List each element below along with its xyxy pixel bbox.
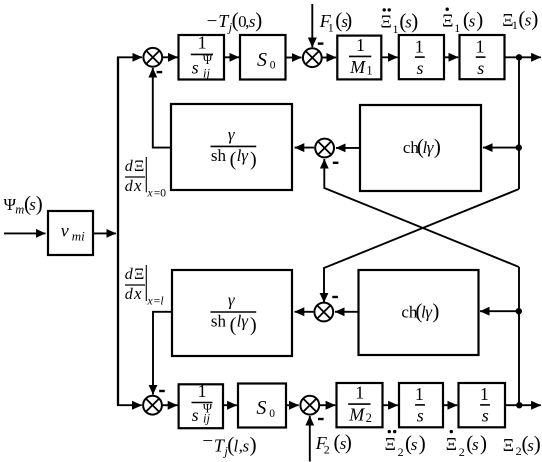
wire S5 to block 1/s_ij bottom	[163, 404, 178, 406]
svg-text:): )	[480, 431, 487, 455]
svg-text:=0: =0	[154, 188, 166, 200]
svg-text:=: =	[154, 295, 161, 307]
svg-text:2: 2	[398, 445, 404, 459]
wire 1/M1 to 1/s a	[381, 56, 397, 58]
svg-text:M: M	[349, 57, 366, 77]
summing junction S1	[143, 48, 162, 67]
svg-text:1: 1	[480, 384, 489, 404]
wire 1/s c to 1/s d	[443, 404, 457, 406]
svg-text:Ξ: Ξ	[381, 12, 392, 32]
summing junction S4	[314, 303, 333, 322]
label dXi/dx at x=0	[125, 157, 166, 200]
junction dot bottom output	[516, 402, 522, 408]
junction dot top output	[516, 54, 522, 60]
block 1/s c	[399, 383, 443, 427]
minus sign at S2 top input	[318, 42, 324, 44]
svg-text:1: 1	[454, 21, 460, 35]
minus sign at S5 top input	[159, 390, 165, 392]
wire F2 input rise	[309, 416, 311, 462]
label F2(s)	[315, 430, 352, 456]
svg-text:M: M	[348, 405, 365, 425]
svg-text:s: s	[469, 11, 476, 30]
svg-text:1: 1	[356, 35, 365, 55]
wire S0 to summer S2	[286, 57, 302, 59]
label Xi1 dot (s)	[442, 8, 483, 36]
junction dot ch1 input	[516, 144, 522, 150]
block 1/s d	[459, 383, 506, 427]
wire S2 to 1/M1	[322, 57, 336, 59]
wire S3 bottom input diagonal from Xi2 line	[324, 159, 519, 267]
svg-text:ν: ν	[61, 221, 69, 241]
wire ch1 to summer S3	[336, 147, 360, 149]
label Xi2 dot (s)	[446, 430, 487, 459]
minus sign at S3 bottom input	[333, 162, 339, 164]
block ch2	[359, 270, 479, 355]
label F1(s)	[319, 8, 353, 34]
wire trunk to summer S1	[117, 56, 142, 58]
wire 1/s_ij to S0	[224, 56, 239, 58]
label Xi1(s) output	[502, 6, 538, 32]
block gamma over sh(l gamma) bottom	[172, 270, 292, 356]
svg-text:1: 1	[393, 22, 399, 36]
svg-text:mi: mi	[72, 228, 85, 243]
wire into ch1 right	[483, 147, 519, 149]
svg-text:): )	[411, 9, 418, 33]
summing junction S2	[303, 48, 322, 67]
wire trunk to summer S5	[117, 404, 142, 406]
label Psi_m(s) input	[4, 191, 43, 216]
wire S1 to block 1/s_ij	[163, 56, 178, 58]
svg-text:sh: sh	[211, 146, 227, 165]
svg-text:1: 1	[476, 36, 485, 56]
summing junction S3	[315, 139, 334, 158]
svg-text:Ξ: Ξ	[385, 434, 396, 454]
wire output Xi2	[505, 404, 541, 406]
svg-text:x: x	[133, 176, 142, 195]
block gamma over sh(l gamma) top	[171, 104, 292, 190]
label dXi/dx at x=l	[125, 265, 164, 307]
block 1/s_ij^Psi bottom	[179, 381, 223, 428]
wire into ch2 right	[480, 310, 519, 312]
svg-text:x: x	[147, 188, 154, 200]
svg-text:2: 2	[366, 411, 372, 425]
label -T_j(l,s)	[202, 431, 256, 458]
svg-text:Ξ: Ξ	[446, 434, 457, 454]
svg-text:d: d	[125, 158, 134, 175]
svg-text:ij: ij	[203, 66, 210, 80]
svg-text:0: 0	[270, 60, 276, 72]
svg-text:): )	[419, 431, 426, 455]
svg-text:m: m	[15, 202, 24, 216]
svg-text:1: 1	[415, 384, 424, 404]
block nu_mi	[48, 211, 93, 255]
svg-text:): )	[255, 8, 262, 32]
svg-text:1: 1	[415, 36, 424, 56]
block 1/s a	[399, 35, 444, 79]
junction dot ch2 input	[516, 308, 522, 314]
svg-text:ij: ij	[203, 412, 210, 426]
wire F1 input drop	[311, 4, 313, 47]
svg-text:s: s	[417, 406, 424, 426]
minus sign at S1 bottom input	[157, 71, 163, 73]
svg-text:s: s	[192, 405, 199, 425]
svg-text:s: s	[192, 58, 199, 78]
svg-text:x: x	[133, 284, 142, 303]
svg-text:Ψ: Ψ	[203, 53, 213, 67]
wire 1/s a to 1/s b	[444, 56, 458, 58]
wire Xi1 feedback drop	[518, 57, 520, 189]
svg-text:−: −	[202, 431, 213, 452]
svg-text:1: 1	[512, 18, 518, 32]
summing junction S6	[300, 396, 319, 415]
svg-text:s: s	[411, 435, 418, 454]
svg-text:Ξ: Ξ	[442, 10, 453, 30]
svg-text:): )	[250, 148, 257, 170]
label -T_j(0,s)	[207, 8, 263, 34]
svg-text:): )	[250, 314, 257, 336]
svg-text:s: s	[417, 58, 424, 78]
svg-text:l: l	[160, 295, 163, 307]
svg-text:s: s	[472, 435, 479, 454]
svg-text:x: x	[147, 295, 154, 307]
svg-text:): )	[534, 432, 541, 456]
wire right mid vertical to bottom junction	[518, 267, 520, 405]
minus sign at S6 bottom input	[318, 418, 324, 420]
svg-text:1: 1	[355, 383, 364, 403]
svg-text:(: (	[230, 314, 237, 336]
wire S3 to gamma/sh1	[295, 147, 315, 149]
svg-text:d: d	[125, 266, 134, 283]
wire nu_mi output to trunk	[93, 232, 116, 234]
svg-text:Ξ: Ξ	[503, 435, 514, 455]
svg-text:): )	[432, 299, 439, 323]
svg-text:): )	[36, 191, 43, 215]
svg-text:Ξ: Ξ	[134, 266, 144, 283]
svg-text:−: −	[207, 11, 218, 32]
label Xi2(s) output	[503, 432, 541, 459]
wire S6 to 1/M2	[319, 404, 335, 406]
svg-text:1: 1	[198, 381, 207, 401]
wire input arrow into nu_mi	[4, 232, 46, 234]
svg-text:d: d	[125, 178, 134, 195]
svg-text:2: 2	[324, 443, 330, 457]
wire gamma/sh1 output to S1 bottom	[153, 68, 171, 148]
block 1/M1	[337, 35, 381, 80]
wire gamma/sh2 output to S5 top	[153, 312, 172, 395]
svg-text:): )	[434, 134, 441, 158]
svg-text:Ξ: Ξ	[134, 158, 144, 175]
svg-text:): )	[250, 432, 257, 456]
wire S0 bottom to summer S6	[286, 404, 299, 406]
wire S4 to gamma/sh2	[295, 311, 314, 313]
block 1/s b	[460, 35, 505, 79]
label Xi2 double-dot (s)	[385, 430, 426, 459]
svg-text:2: 2	[459, 445, 465, 459]
svg-text:s: s	[477, 58, 484, 78]
svg-text:s: s	[482, 406, 489, 426]
wire ch2 to summer S4	[335, 311, 359, 313]
svg-text:s: s	[243, 436, 250, 455]
svg-text:1: 1	[328, 21, 334, 35]
wire output Xi1	[505, 56, 541, 58]
svg-text:): )	[345, 8, 352, 32]
svg-text:d: d	[125, 286, 134, 303]
label Xi1 double-dot (s)	[381, 8, 419, 36]
svg-text:1: 1	[366, 64, 372, 78]
wire Xi1 diagonal to S4 (crossing)	[324, 189, 519, 303]
svg-text:S: S	[257, 49, 267, 71]
svg-text:1: 1	[198, 33, 207, 53]
svg-text:): )	[345, 430, 352, 454]
block S0 bottom	[238, 384, 286, 428]
block 1/M2	[337, 383, 383, 428]
svg-text:): )	[476, 8, 483, 32]
wire 1/s_ij bottom to S0 bottom	[223, 404, 237, 406]
block S0 top	[240, 35, 286, 80]
svg-text:): )	[531, 6, 538, 30]
svg-text:(: (	[230, 148, 237, 170]
block ch1	[360, 105, 481, 191]
wire trunk vertical	[117, 57, 119, 405]
minus sign at S4 top input	[332, 296, 338, 298]
svg-text:sh: sh	[211, 312, 227, 331]
svg-text:0: 0	[269, 408, 275, 420]
block 1/s_ij^Psi top	[179, 33, 225, 81]
summing junction S5	[143, 396, 162, 415]
wire 1/M2 to 1/s c	[383, 404, 398, 406]
svg-text:S: S	[256, 397, 266, 419]
